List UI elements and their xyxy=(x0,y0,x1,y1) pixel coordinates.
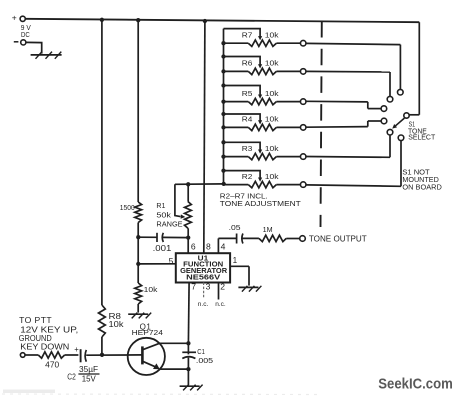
svg-text:S1 NOT: S1 NOT xyxy=(402,170,430,177)
svg-text:R2: R2 xyxy=(242,172,253,181)
svg-text:ON BOARD: ON BOARD xyxy=(402,185,441,192)
svg-text:R4: R4 xyxy=(242,115,253,124)
svg-text:MOUNTED: MOUNTED xyxy=(402,177,438,184)
svg-text:.001: .001 xyxy=(153,244,172,253)
svg-text:7: 7 xyxy=(191,282,196,292)
svg-text:R6: R6 xyxy=(242,59,253,68)
svg-text:470: 470 xyxy=(45,360,60,369)
svg-text:R7: R7 xyxy=(242,30,253,39)
svg-text:.005: .005 xyxy=(196,356,213,365)
svg-text:15V: 15V xyxy=(82,374,97,383)
svg-text:10k: 10k xyxy=(265,59,279,68)
svg-text:SeekIC.com: SeekIC.com xyxy=(378,376,453,393)
svg-text:R3: R3 xyxy=(242,144,253,153)
svg-text:35µF: 35µF xyxy=(79,365,98,374)
svg-text:10k: 10k xyxy=(265,115,279,124)
svg-text:TONE ADJUSTMENT: TONE ADJUSTMENT xyxy=(220,199,302,208)
svg-text:+: + xyxy=(74,345,79,354)
svg-text:1500: 1500 xyxy=(120,203,135,212)
svg-text:R1: R1 xyxy=(156,201,165,210)
svg-text:6: 6 xyxy=(191,241,196,251)
svg-text:RANGE: RANGE xyxy=(156,220,182,229)
svg-text:DC: DC xyxy=(21,30,30,39)
svg-text:10k: 10k xyxy=(265,172,279,181)
svg-text:10k: 10k xyxy=(265,144,279,153)
svg-text:+: + xyxy=(12,13,17,23)
svg-text:S1: S1 xyxy=(409,121,416,128)
svg-text:10k: 10k xyxy=(109,320,124,329)
svg-text:1: 1 xyxy=(233,256,238,265)
svg-text:C1: C1 xyxy=(197,347,205,356)
svg-text:10k: 10k xyxy=(265,30,279,39)
svg-text:.05: .05 xyxy=(229,223,241,232)
svg-text:TONE OUTPUT: TONE OUTPUT xyxy=(309,235,367,244)
svg-text:50k: 50k xyxy=(156,211,171,220)
svg-text:2: 2 xyxy=(220,282,225,292)
svg-text:10k: 10k xyxy=(265,89,279,98)
svg-text:HEP724: HEP724 xyxy=(132,328,163,337)
svg-text:n.c.: n.c. xyxy=(215,301,226,308)
svg-text:NE566V: NE566V xyxy=(186,275,220,282)
svg-text:1M: 1M xyxy=(263,225,273,234)
svg-text:10k: 10k xyxy=(144,285,158,294)
svg-text:R5: R5 xyxy=(242,89,253,98)
svg-text:TO PTT: TO PTT xyxy=(19,316,52,325)
svg-text:4: 4 xyxy=(221,241,226,251)
svg-text:C2: C2 xyxy=(67,372,76,381)
svg-text:n.c.: n.c. xyxy=(198,301,209,308)
svg-text:3: 3 xyxy=(206,282,211,292)
svg-text:8: 8 xyxy=(206,241,211,251)
svg-text:5: 5 xyxy=(169,256,174,266)
svg-text:SELECT: SELECT xyxy=(408,134,436,141)
